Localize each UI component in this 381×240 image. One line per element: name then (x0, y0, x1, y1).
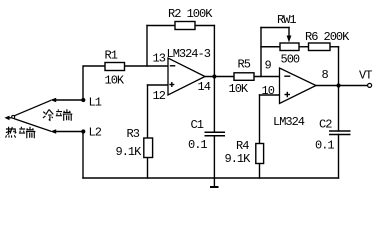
svg-text:C1: C1 (191, 118, 204, 132)
svg-text:L2: L2 (89, 126, 102, 140)
wire R5 to op2 pin 9 (254, 76, 280, 78)
resistor R6 200K (309, 43, 331, 51)
terminal VT open circle (368, 83, 372, 87)
ground bar (210, 186, 219, 188)
ground stub (213, 178, 215, 187)
wire RW1 left terminal (261, 46, 280, 48)
thermocouple hot-junction arrow (5, 115, 15, 120)
wire node to C1 top (213, 77, 215, 133)
op-amp U2 LM324 triangle (280, 68, 317, 104)
potentiometer RW1 wiper arrow (287, 36, 292, 43)
potentiometer RW1 500 body (280, 43, 299, 51)
svg-text:R1: R1 (105, 49, 118, 63)
svg-text:10K: 10K (229, 82, 249, 96)
svg-text:14: 14 (198, 80, 211, 94)
svg-text:10: 10 (262, 84, 275, 98)
resistor R3 9.1K (144, 138, 153, 158)
capacitor C1 plates (205, 131, 226, 133)
wire pin10 down to R4 (259, 95, 261, 144)
svg-text:L1: L1 (89, 96, 102, 110)
svg-text:9.1K: 9.1K (116, 145, 143, 159)
resistor R5 10K (234, 73, 254, 81)
wire L2 horizontal (55, 131, 83, 133)
svg-text:200K: 200K (324, 30, 351, 44)
wire C1 bottom to rail (213, 136, 215, 178)
wire L2 vertical down (82, 132, 84, 179)
wire op2 output to VT terminal (316, 85, 367, 87)
resistor R2 100K (175, 22, 195, 30)
wire pin 12 (148, 84, 169, 86)
svg-text:R5: R5 (238, 58, 251, 72)
wire feedback right vertical (R2 to output node) (213, 26, 215, 77)
svg-text:9.1K: 9.1K (225, 152, 252, 166)
wire pin12 down to R3 (147, 85, 149, 138)
wire L1 horizontal (55, 99, 83, 101)
op-amp U1 LM324-3 triangle (168, 58, 205, 95)
svg-text:R6: R6 (305, 30, 318, 44)
svg-text:R4: R4 (236, 139, 249, 153)
wire L1 vertical up to R1 level (83, 66, 105, 100)
wire R3 bottom lead (147, 158, 149, 179)
svg-text:VT: VT (359, 69, 372, 83)
thermocouple upper diagonal wire (15, 100, 52, 115)
node op1 output junction dot (212, 74, 216, 78)
node L2 junction dot (81, 129, 85, 133)
svg-text:9: 9 (265, 59, 272, 73)
wire bottom rail (83, 177, 339, 179)
svg-text:LM324: LM324 (273, 115, 305, 129)
wire feedback left vertical (pin13 to R2) (146, 26, 148, 67)
resistor R4 9.1K (256, 144, 264, 164)
thermocouple lower diagonal wire (14, 119, 51, 132)
node L1 junction dot (81, 98, 85, 102)
label 冷端 (cold junction) hand-drawn (43, 109, 72, 121)
wire R1 to op-amp pin 13 (125, 65, 169, 67)
wire op1 output to R5 (205, 76, 234, 78)
svg-text:R3: R3 (127, 127, 140, 141)
svg-text:8: 8 (322, 68, 329, 82)
svg-text:12: 12 (153, 89, 166, 103)
svg-text:13: 13 (153, 52, 166, 66)
wire RW1 left vertical down to pin9 (260, 28, 262, 77)
svg-text:R2 100K: R2 100K (168, 7, 213, 21)
svg-text:0.1: 0.1 (188, 138, 207, 152)
wire C2 bottom to rail (338, 135, 340, 179)
wire R6 corner down to output node (338, 47, 340, 86)
wire RW1 right to R6 (299, 46, 309, 48)
wire RW1 wiper stem (288, 28, 290, 37)
wire RW1 top (wiper link) (261, 27, 289, 29)
svg-text:10K: 10K (105, 74, 125, 88)
svg-text:0.1: 0.1 (315, 139, 334, 153)
wire pin 10 (260, 94, 280, 96)
capacitor C2 plates (329, 130, 351, 132)
wire feedback top right (195, 25, 214, 27)
svg-text:RW1: RW1 (277, 13, 296, 27)
svg-text:LM324-3: LM324-3 (167, 47, 211, 61)
wire output node to C2 top (338, 86, 340, 132)
label 热端 (hot junction) hand-drawn (6, 127, 36, 139)
svg-text:C2: C2 (319, 118, 332, 132)
svg-text:500: 500 (281, 53, 300, 67)
arrowhead at L2 wire (50, 129, 56, 134)
arrowhead at L1 wire (50, 98, 56, 103)
wire R6 right to corner (330, 46, 339, 48)
wire R4 bottom lead (259, 164, 261, 179)
wire feedback top left (147, 25, 175, 27)
resistor R1 10K (105, 63, 125, 71)
node op2 output junction dot (336, 83, 340, 87)
